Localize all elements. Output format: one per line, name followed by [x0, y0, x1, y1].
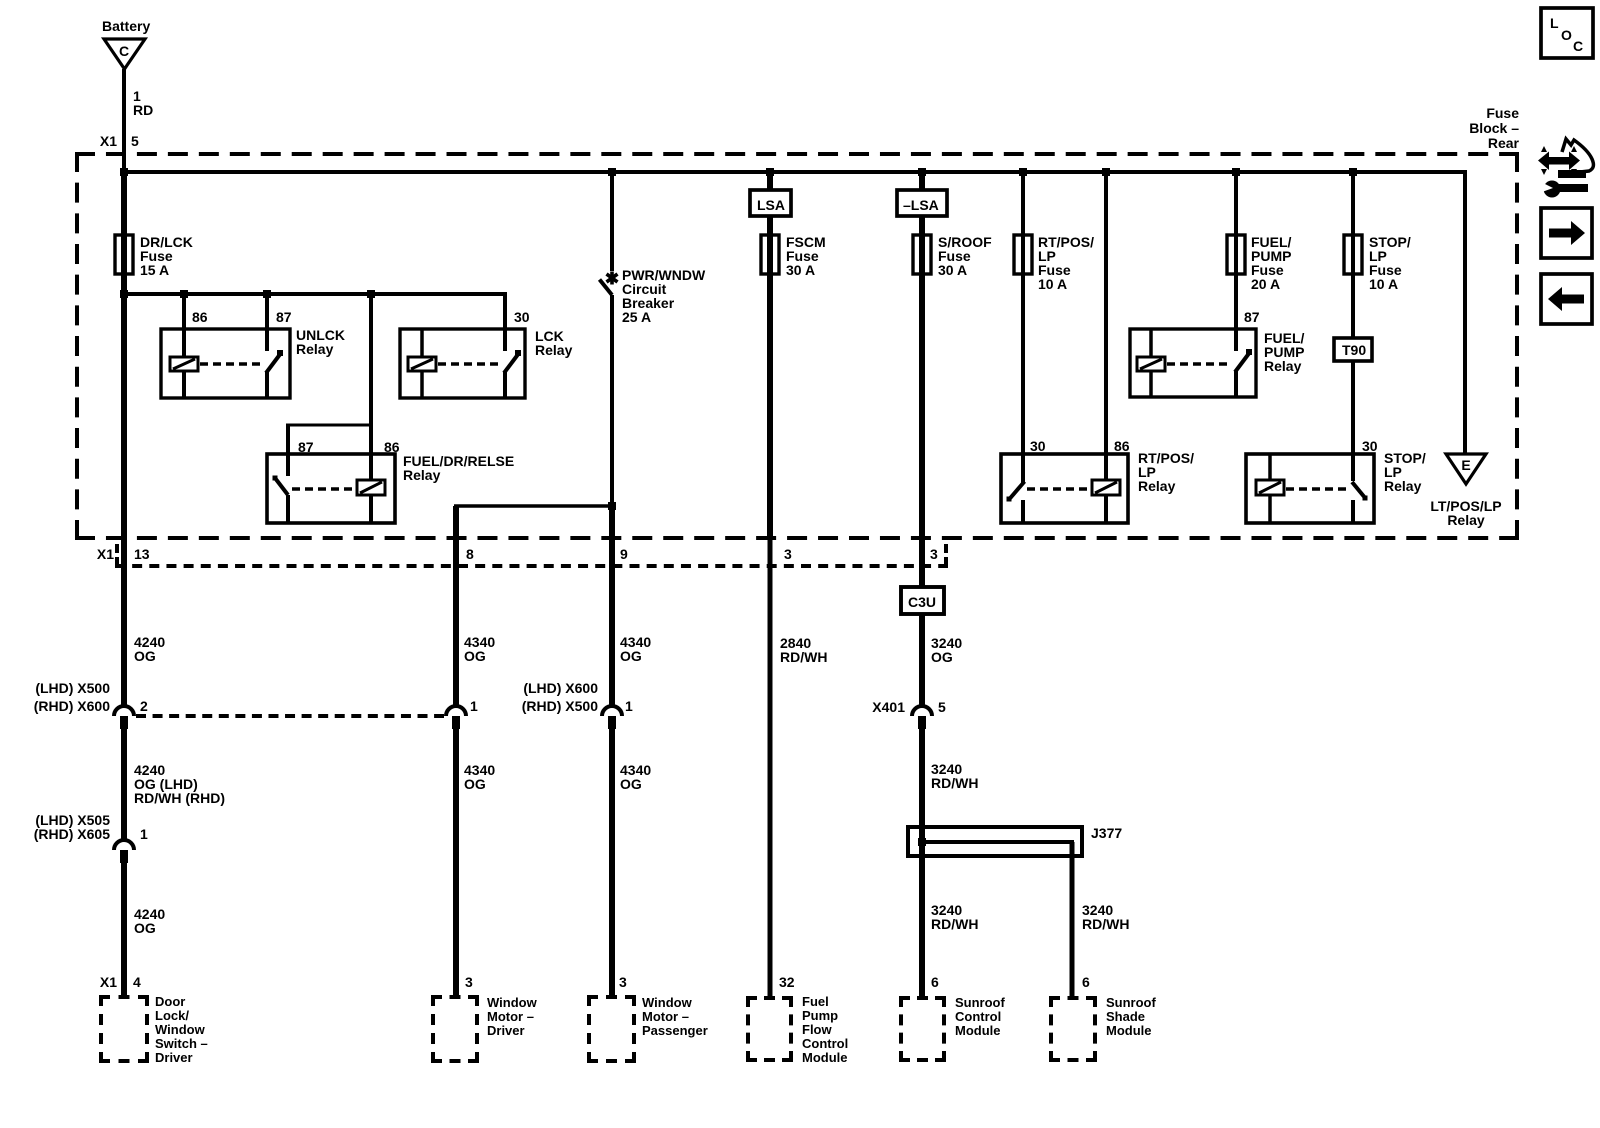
LCK relay coil-contact dashed link: [438, 362, 500, 366]
svg-text:Shade: Shade: [1106, 1009, 1145, 1024]
svg-text:30 A: 30 A: [938, 262, 967, 278]
wire breaker to X1-9: [610, 295, 614, 506]
svg-text:Motor –: Motor –: [642, 1009, 689, 1024]
svg-text:RD/WH (RHD): RD/WH (RHD): [134, 790, 225, 806]
svg-text:T90: T90: [1342, 342, 1366, 358]
svg-text:1: 1: [140, 826, 148, 842]
wire X1-9 to window motor passenger: [609, 506, 615, 706]
wire bus to STOP/LP fuse and T90: [1351, 172, 1355, 338]
fuse RT/POS/LP 10A: [1014, 235, 1032, 274]
terminal box -LSA: [897, 190, 947, 216]
battery positive voltage symbol C: [104, 39, 145, 69]
connector X401 pin 5: [912, 706, 932, 716]
fuse STOP/LP 10A: [1344, 235, 1362, 274]
relay feed bus wire: [122, 292, 507, 296]
terminal box T90: [1334, 338, 1372, 361]
svg-text:(RHD) X605: (RHD) X605: [34, 826, 110, 842]
svg-text:30: 30: [1362, 438, 1378, 454]
svg-text:Relay: Relay: [1384, 478, 1422, 494]
svg-text:Driver: Driver: [487, 1023, 525, 1038]
FUEL/PUMP relay coil lower wire: [1149, 371, 1153, 397]
back navigation arrow box: [1541, 274, 1592, 324]
svg-text:Passenger: Passenger: [642, 1023, 708, 1038]
svg-text:L: L: [1550, 15, 1559, 31]
wire bus to LT/POS/LP relay: [1463, 172, 1467, 454]
junction relay bus / UNLCK 86: [180, 290, 188, 298]
dashed link X500 to X600 connector: [136, 714, 444, 718]
main feed bus wire: [122, 170, 1467, 174]
svg-text:86: 86: [384, 439, 400, 455]
STOP/LP dashed link: [1286, 487, 1350, 491]
svg-text:X1: X1: [100, 974, 117, 990]
svg-text:Fuel: Fuel: [802, 994, 829, 1009]
svg-text:(LHD) X500: (LHD) X500: [35, 680, 110, 696]
wire bus to FUEL/PUMP fuse and relay 87: [1234, 172, 1238, 351]
STOP/LP coil lower wire: [1268, 495, 1272, 523]
terminal box LSA: [750, 190, 791, 216]
svg-text:J377: J377: [1091, 825, 1122, 841]
svg-text:Module: Module: [802, 1050, 848, 1065]
svg-text:X1: X1: [100, 133, 117, 149]
svg-text:Block –: Block –: [1469, 120, 1519, 136]
svg-text:6: 6: [931, 974, 939, 990]
fuel pump flow control module box: [746, 996, 793, 1000]
connector window motor driver pin 1: [446, 706, 466, 716]
svg-text:10 A: 10 A: [1369, 276, 1398, 292]
fuse FSCM 30A: [761, 235, 779, 274]
wire bus to circuit breaker: [610, 172, 614, 271]
wire bus to DR/LCK fuse and relays: [121, 172, 127, 540]
svg-text:OG: OG: [464, 776, 486, 792]
relay FUEL/DR/RELSE box: [267, 454, 395, 523]
svg-text:3: 3: [619, 974, 627, 990]
svg-text:5: 5: [131, 133, 139, 149]
LT/POS/LP relay symbol E: [1446, 454, 1486, 484]
svg-text:15 A: 15 A: [140, 262, 169, 278]
wire T90 to STOP/LP relay 30: [1351, 361, 1355, 481]
svg-text:X401: X401: [872, 699, 905, 715]
junction relay bus / FUEL-DR-RELSE: [367, 290, 375, 298]
svg-text:OG: OG: [134, 920, 156, 936]
svg-text:5: 5: [938, 699, 946, 715]
connector X500 pin 2: [114, 706, 134, 716]
FUEL/DR/RELSE coil lower wire: [369, 495, 373, 523]
wire bus through LSA to FSCM fuse: [767, 172, 773, 540]
svg-text:RD/WH: RD/WH: [780, 649, 827, 665]
STOP/LP contact lower wire: [1351, 500, 1355, 523]
LCK relay contact lower wire: [503, 371, 507, 398]
wire X1-3 to fuel pump flow control module: [768, 540, 773, 996]
connector window motor passenger pin 1: [602, 706, 622, 716]
svg-text:1: 1: [625, 698, 633, 714]
svg-text:LSA: LSA: [757, 197, 785, 213]
junction bus/FUEL-PUMP fuse: [1232, 168, 1240, 176]
wire X401 to J377: [919, 729, 925, 996]
svg-text:Fuse: Fuse: [1486, 105, 1519, 121]
FUEL/PUMP relay contact lower wire: [1234, 371, 1238, 397]
svg-text:Driver: Driver: [155, 1050, 193, 1065]
UNLCK relay coil-contact dashed link: [200, 362, 262, 366]
svg-text:C3U: C3U: [908, 594, 936, 610]
svg-text:Switch –: Switch –: [155, 1036, 208, 1051]
splice pack J377: [908, 827, 1082, 856]
svg-text:OG: OG: [464, 648, 486, 664]
svg-text:Lock/: Lock/: [155, 1008, 189, 1023]
svg-text:C: C: [119, 43, 129, 59]
sunroof shade module box: [1049, 996, 1097, 1000]
svg-text:Relay: Relay: [296, 341, 334, 357]
relay STOP/LP box: [1246, 454, 1374, 523]
svg-text:4: 4: [133, 974, 141, 990]
wire X1-13 to connector X500: [121, 540, 127, 706]
svg-text:RD/WH: RD/WH: [1082, 916, 1129, 932]
wire J377 to sunroof shade module: [1070, 842, 1075, 996]
svg-text:OG: OG: [620, 648, 642, 664]
navigation icon double arrow with wrench: [1538, 139, 1593, 198]
svg-text:Relay: Relay: [535, 342, 573, 358]
STOP/LP coil: [1256, 480, 1284, 495]
relay FUEL/PUMP box: [1130, 329, 1256, 397]
svg-text:13: 13: [134, 546, 150, 562]
RT/POS/LP coil lower wire: [1104, 495, 1108, 523]
svg-text:3: 3: [930, 546, 938, 562]
RT/POS/LP coil: [1092, 480, 1120, 495]
UNLCK relay coil wire: [182, 294, 186, 357]
window motor driver box: [431, 995, 479, 999]
RT/POS/LP dashed link: [1027, 487, 1090, 491]
svg-text:C: C: [1573, 38, 1583, 54]
junction breaker/window-driver jog: [608, 502, 616, 510]
junction bus/breaker: [608, 168, 616, 176]
junction J377: [918, 838, 926, 846]
FUEL/PUMP relay dashed link: [1167, 362, 1230, 366]
LCK relay contact blade: [504, 353, 519, 373]
svg-text:(RHD) X600: (RHD) X600: [34, 698, 110, 714]
UNLCK relay 87 contact wire: [265, 294, 269, 351]
svg-text:(RHD) X500: (RHD) X500: [522, 698, 598, 714]
UNLCK relay contact blade: [266, 353, 281, 373]
svg-text:3: 3: [784, 546, 792, 562]
junction battery/bus: [120, 168, 128, 176]
svg-text:87: 87: [298, 439, 314, 455]
wire jog to X1-8: [454, 504, 612, 508]
svg-text:87: 87: [276, 309, 292, 325]
relay UNLCK box: [161, 329, 290, 398]
wire X500 to X505: [121, 729, 127, 840]
RT/POS/LP contact blade: [1009, 482, 1025, 500]
svg-text:Module: Module: [1106, 1023, 1152, 1038]
relay RT/POS/LP box: [1001, 454, 1128, 523]
svg-text:(LHD) X600: (LHD) X600: [523, 680, 598, 696]
junction bus/RT-POS fuse: [1019, 168, 1027, 176]
wire jog to FUEL/DR/RELSE 87: [286, 424, 373, 427]
junction bus/FSCM: [766, 168, 774, 176]
wire bus to RT/POS relay 86: [1104, 172, 1108, 480]
FUEL/PUMP relay coil: [1137, 357, 1165, 371]
svg-text:Pump: Pump: [802, 1008, 838, 1023]
LCK relay coil wire: [420, 329, 424, 357]
svg-text:Rear: Rear: [1488, 135, 1520, 151]
junction DR/LCK output / relay bus: [120, 290, 128, 298]
wire X1-8 to window motor driver: [453, 506, 459, 706]
svg-text:Relay: Relay: [1138, 478, 1176, 494]
fuse block - rear dashed border: [75, 152, 1519, 156]
connector X1 dotted boundary: [115, 544, 119, 566]
svg-text:Control: Control: [802, 1036, 848, 1051]
FUEL/DR/RELSE coil: [357, 480, 385, 495]
svg-text:Battery: Battery: [102, 18, 150, 34]
STOP/LP contact blade: [1352, 482, 1366, 499]
wire relay bus to FUEL/DR/RELSE: [369, 294, 373, 480]
UNLCK relay coil: [170, 357, 198, 371]
svg-text:Window: Window: [487, 995, 538, 1010]
svg-text:–LSA: –LSA: [903, 197, 939, 213]
UNLCK relay contact lower wire: [265, 371, 269, 398]
fuse DR/LCK 15A: [115, 235, 133, 274]
svg-text:9: 9: [620, 546, 628, 562]
LOC reference box: [1541, 8, 1593, 58]
wire bus to RT/POS/LP fuse and relay 30: [1021, 172, 1025, 484]
svg-text:E: E: [1461, 457, 1470, 473]
forward navigation arrow box: [1541, 208, 1592, 258]
svg-text:OG: OG: [134, 648, 156, 664]
svg-text:Sunroof: Sunroof: [1106, 995, 1156, 1010]
LCK relay coil lower wire: [420, 371, 424, 398]
svg-text:6: 6: [1082, 974, 1090, 990]
svg-text:8: 8: [466, 546, 474, 562]
circuit breaker PWR/WNDW 25A symbol: [610, 272, 614, 285]
svg-text:Relay: Relay: [403, 467, 441, 483]
terminal box C3U: [901, 587, 944, 614]
door lock/window switch driver box: [99, 995, 149, 999]
svg-text:86: 86: [192, 309, 208, 325]
LCK relay coil: [408, 357, 436, 371]
RT/POS/LP contact lower wire: [1021, 500, 1025, 523]
wire bus through -LSA to S/ROOF fuse: [919, 172, 925, 706]
STOP/LP coil wire: [1268, 454, 1272, 480]
wire X505 to door lock switch: [121, 863, 127, 995]
window motor passenger box: [587, 995, 636, 999]
junction bus/RT-POS relay coil: [1102, 168, 1110, 176]
svg-text:30: 30: [1030, 438, 1046, 454]
svg-text:Flow: Flow: [802, 1022, 832, 1037]
svg-text:1: 1: [470, 698, 478, 714]
junction bus/S-ROOF: [918, 168, 926, 176]
svg-text:30 A: 30 A: [786, 262, 815, 278]
svg-text:Relay: Relay: [1264, 358, 1302, 374]
svg-text:3: 3: [465, 974, 473, 990]
FUEL/PUMP relay coil wire: [1149, 329, 1153, 357]
svg-text:Window: Window: [642, 995, 693, 1010]
svg-text:20 A: 20 A: [1251, 276, 1280, 292]
connector X505 pin 1: [114, 840, 134, 850]
fuse S/ROOF 30A: [913, 235, 931, 274]
svg-text:32: 32: [779, 974, 795, 990]
sunroof control module box: [899, 996, 946, 1000]
relay LCK box: [400, 329, 525, 398]
svg-text:87: 87: [1244, 309, 1260, 325]
svg-text:RD/WH: RD/WH: [931, 916, 978, 932]
svg-text:O: O: [1561, 27, 1572, 43]
FUEL/PUMP relay contact blade: [1235, 352, 1250, 372]
FUEL/DR/RELSE dashed link: [292, 487, 356, 491]
junction relay bus / UNLCK 87: [263, 290, 271, 298]
svg-text:25 A: 25 A: [622, 309, 651, 325]
FUEL/DR/RELSE contact blade: [275, 478, 288, 495]
svg-text:X1: X1: [97, 546, 114, 562]
svg-text:Door: Door: [155, 994, 185, 1009]
junction bus/STOP-LP fuse: [1349, 168, 1357, 176]
UNLCK relay coil lower wire: [182, 371, 186, 398]
svg-text:Control: Control: [955, 1009, 1001, 1024]
svg-text:30: 30: [514, 309, 530, 325]
wire relay bus to LCK relay 30: [503, 294, 507, 351]
svg-text:Module: Module: [955, 1023, 1001, 1038]
wire battery feed 1 RD: [122, 69, 126, 172]
FUEL/DR/RELSE contact lower wire: [286, 495, 290, 523]
svg-text:10 A: 10 A: [1038, 276, 1067, 292]
svg-text:Sunroof: Sunroof: [955, 995, 1005, 1010]
svg-text:OG: OG: [620, 776, 642, 792]
svg-text:RD: RD: [133, 102, 153, 118]
svg-text:OG: OG: [931, 649, 953, 665]
svg-text:RD/WH: RD/WH: [931, 775, 978, 791]
svg-text:Motor –: Motor –: [487, 1009, 534, 1024]
svg-text:2: 2: [140, 698, 148, 714]
svg-text:Relay: Relay: [1447, 512, 1485, 528]
fuse FUEL/PUMP 20A: [1227, 235, 1245, 274]
svg-text:Window: Window: [155, 1022, 206, 1037]
svg-text:86: 86: [1114, 438, 1130, 454]
